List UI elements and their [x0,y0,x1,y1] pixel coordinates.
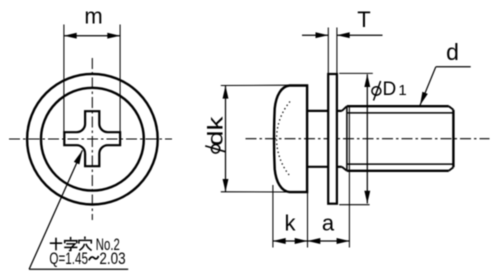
tip chamfer top [449,106,454,110]
k extension line (head apex) [272,185,274,248]
T extension line left [327,28,329,74]
kanji 十 [50,238,62,251]
a arrow left [308,238,321,244]
T arrow left [316,32,329,38]
m dimension line [64,35,120,37]
kanji 字 [64,237,77,251]
phi-dk extension line bottom [221,191,289,193]
phi-D1 dimension line [366,74,368,203]
vertical centerline (left view) [91,58,93,220]
phi-D1 extension line bottom [339,204,369,206]
a extension line (thread start) [348,106,350,248]
screw end face [452,110,454,167]
svg-text:a: a [322,211,335,236]
phi-D1 extension line top [339,72,373,74]
svg-text:T: T [357,7,370,32]
neck top line (washer to thread) [337,110,342,112]
phi-D1 arrow down [364,191,370,204]
leader underline [29,268,128,270]
neck bottom line (washer to thread) [337,166,342,168]
outer head circle [27,74,158,205]
washer front rectangle [328,74,337,204]
wave dash [89,256,99,261]
thread crest top [347,105,449,107]
phi-dk dimension line [225,86,227,192]
neck top line (head to washer) [307,110,328,112]
T extension line right [336,28,338,74]
phi-D1 arrow up [364,74,370,87]
thread start line [346,106,348,171]
inner head circle [41,88,144,191]
label phi-D1 [372,79,407,101]
neck bottom line (head to washer) [307,166,328,168]
svg-text:dk: dk [205,116,228,146]
thread root bottom [347,163,454,165]
svg-text:1: 1 [398,82,406,99]
svg-text:D: D [383,79,397,100]
leader arrowhead [74,150,83,164]
kanji 穴 [79,237,92,251]
d leader arrowhead [420,92,428,106]
a arrow right [337,238,350,244]
svg-text:Q=1.45: Q=1.45 [49,250,88,268]
m arrow left [64,33,77,39]
k-a dimension line [273,240,350,242]
phi-dk arrow up [223,86,229,99]
k arrow right [295,238,308,244]
d leader diagonal [420,67,436,106]
thread root top [347,112,454,114]
horizontal centerline (right view) [246,138,490,140]
head crown dotted arc [277,102,290,177]
horizontal centerline (left view) [9,138,172,140]
d leader shoulder [436,66,471,68]
tip chamfer bottom [449,167,454,171]
T dimension tail left [302,34,328,36]
pan head outline [274,86,307,193]
m extension line right [119,25,121,134]
svg-text:2.03: 2.03 [99,250,125,268]
svg-text:d: d [446,39,459,65]
thread run-out chamfer bottom [342,167,347,171]
phi-dk extension line top [221,84,289,86]
phi-dk arrow down [223,179,229,192]
label phi-dk (rotated) [211,145,219,154]
T dimension tail right [337,34,383,36]
k/a shared extension line (bearing face) [307,192,309,247]
svg-text:m: m [84,4,102,29]
k arrow left [273,238,286,244]
svg-text:k: k [285,211,297,236]
thread crest bottom [347,170,449,172]
phillips cross recess [64,111,120,166]
T arrow right [337,32,350,38]
thread run-out chamfer top [342,106,347,111]
leader line to cross recess [29,150,82,269]
m arrow right [107,33,120,39]
m extension line left [63,25,65,134]
